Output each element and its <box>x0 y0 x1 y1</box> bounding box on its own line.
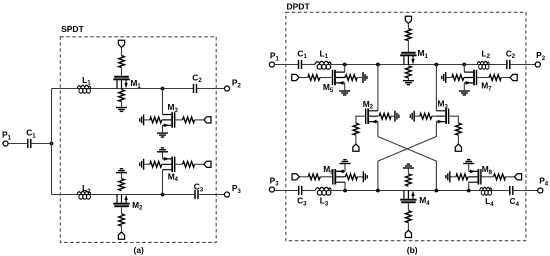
ground left of M3 body <box>140 114 144 125</box>
control terminal of M3 <box>204 117 211 123</box>
wire bottom branch <box>52 194 196 196</box>
node A junction <box>50 142 54 146</box>
svg-text:P3: P3 <box>232 183 242 195</box>
svg-text:DPDT: DPDT <box>287 1 311 11</box>
port P1 <box>3 141 8 146</box>
node top junction <box>161 87 165 91</box>
body resistor of M4 <box>150 161 162 167</box>
wire source of M2 to cross <box>378 122 437 191</box>
ground below M1 <box>116 108 127 112</box>
svg-text:P2: P2 <box>232 78 242 90</box>
node T1 <box>343 63 347 67</box>
svg-text:P2: P2 <box>536 50 546 62</box>
wire P1 to C1 <box>275 64 299 66</box>
wire gate of M1 <box>121 47 123 75</box>
control terminal of M4 <box>405 230 411 237</box>
wire P1 to C1 <box>8 143 28 145</box>
wire C3 to P3 <box>198 194 224 196</box>
wire gate of M5 <box>320 77 332 79</box>
port P1 <box>269 62 274 67</box>
svg-text:L3: L3 <box>320 195 329 207</box>
wire body of M5 to ground <box>357 77 362 79</box>
capacitor C3 <box>195 190 198 199</box>
gate resistor of M3 <box>456 123 462 135</box>
gate resistor of M3 <box>182 117 194 123</box>
inductor L4 <box>480 187 492 195</box>
wire gate of M6 <box>320 176 332 178</box>
ground above M4 <box>157 148 168 152</box>
wire source of M7 to ground <box>463 83 465 90</box>
control terminal of M7 <box>510 74 517 80</box>
gate resistor of M2 <box>119 214 125 226</box>
capacitor C1 <box>299 60 302 69</box>
control terminal of M2 <box>353 144 359 151</box>
body resistor of M7 <box>452 75 464 81</box>
svg-text:P1: P1 <box>2 129 12 141</box>
wire source of M6 to ground <box>344 164 346 171</box>
ground above M6 <box>340 160 351 164</box>
wire body of M4 to ground <box>144 163 150 165</box>
wire node B1 to M6 <box>344 182 346 190</box>
capacitor C2 <box>507 60 510 69</box>
wire body of M6 to ground <box>357 176 362 178</box>
wire bottom rail <box>331 190 510 192</box>
wire body of M1 to ground <box>407 78 409 80</box>
wire to control terminal of M6 <box>299 176 308 178</box>
body resistor of M3 <box>420 113 432 119</box>
port P2 <box>224 86 229 91</box>
svg-text:M4: M4 <box>419 195 430 207</box>
wire node B4 to M8 <box>468 182 470 190</box>
wire gate of M2 <box>356 116 365 123</box>
svg-text:(a): (a) <box>134 245 145 255</box>
transistor M8 <box>468 169 481 184</box>
ground below M7 <box>459 91 470 95</box>
body resistor of M6 <box>345 174 357 180</box>
wire source of M4 to ground <box>162 153 164 159</box>
wire to control terminal of M8 <box>505 176 514 178</box>
ground below M1 <box>403 81 414 85</box>
inductor L1 <box>77 85 91 93</box>
wire node T3 to M3 <box>435 65 437 111</box>
ground left of M8 body <box>446 171 450 182</box>
wire P3 to C3 <box>275 190 299 192</box>
wire gate of M7 <box>477 77 489 79</box>
dashed enclosure box (b) <box>286 12 526 240</box>
gate resistor of M8 <box>493 174 505 180</box>
svg-text:M4: M4 <box>168 171 179 183</box>
svg-text:P3: P3 <box>270 175 280 187</box>
ground right of M5 body <box>363 72 367 83</box>
wire source of M3 to ground <box>162 125 164 132</box>
ground left of M3 body <box>410 111 414 122</box>
svg-text:C1: C1 <box>297 48 307 60</box>
node T4 <box>462 63 466 67</box>
body resistor of M1 <box>119 90 125 102</box>
wire gate of M8 <box>482 176 494 178</box>
inductor L3 <box>315 187 331 195</box>
body resistor of M2 <box>379 113 391 119</box>
node B1 <box>343 189 347 193</box>
ground above M8 <box>463 160 474 164</box>
wire to control terminal of M3 <box>457 135 459 144</box>
wire C4 to P4 <box>513 190 538 192</box>
wire C2 to P2 <box>197 88 225 90</box>
transistor M4 <box>162 157 175 172</box>
ground below M3 <box>157 133 168 137</box>
node T3 <box>435 63 439 67</box>
wire node to M4 <box>162 170 164 195</box>
wire gate of M2 <box>121 208 123 233</box>
body resistor of M1 <box>406 66 412 78</box>
wire source of M5 to ground <box>344 83 346 90</box>
port P3 <box>224 192 229 197</box>
transistor M5 <box>332 70 345 85</box>
control terminal of M1 <box>405 16 411 23</box>
wire gate of M3 <box>175 119 182 121</box>
svg-text:C2: C2 <box>192 72 202 84</box>
wire node T4 to M7 <box>463 65 465 73</box>
transistor M1 <box>400 52 416 65</box>
svg-text:C2: C2 <box>506 48 516 60</box>
body resistor of M3 <box>150 117 162 123</box>
gate resistor of M4 <box>406 211 412 223</box>
svg-text:L2: L2 <box>482 48 491 60</box>
transistor M1 <box>113 76 129 89</box>
inductor L1 <box>315 61 331 69</box>
gate resistor of M5 <box>308 75 320 81</box>
port P4 <box>538 188 543 193</box>
ground above M2 <box>116 169 127 173</box>
wire gate of M4 <box>407 203 409 230</box>
gate resistor of M4 <box>182 161 194 167</box>
wire body of M3 to ground <box>144 119 150 121</box>
transistor M2 <box>365 109 378 124</box>
wire gate of M4 <box>175 163 182 165</box>
ground below M5 <box>339 91 350 95</box>
svg-text:M3: M3 <box>438 99 449 111</box>
capacitor C3 <box>299 186 302 195</box>
svg-text:L1: L1 <box>320 48 329 60</box>
control terminal of M2 <box>118 232 124 239</box>
wire C3 to L3 <box>302 190 315 192</box>
node B2 <box>376 189 380 193</box>
svg-text:L1: L1 <box>82 75 91 87</box>
transistor M2 <box>113 194 129 207</box>
ground left of M7 body <box>442 72 446 83</box>
svg-text:M2: M2 <box>132 200 143 212</box>
svg-text:SPDT: SPDT <box>61 24 84 34</box>
wire top branch <box>52 88 194 90</box>
node bottom junction <box>161 193 165 197</box>
svg-text:L2: L2 <box>82 183 91 195</box>
gate resistor of M2 <box>353 123 359 135</box>
capacitor C4 <box>510 186 513 195</box>
svg-text:C1: C1 <box>26 127 36 139</box>
wire node T2 to M2 <box>377 65 379 111</box>
wire gate of M3 <box>449 116 458 123</box>
dashed enclosure box (a) <box>60 37 216 243</box>
svg-text:(b): (b) <box>407 245 418 255</box>
wire to control terminal of M3 <box>194 119 203 121</box>
wire body of M4 to ground <box>407 169 409 175</box>
control terminal of M1 <box>118 40 124 47</box>
svg-text:C3: C3 <box>297 195 307 207</box>
body resistor of M2 <box>119 179 125 191</box>
port P3 <box>269 187 274 192</box>
capacitor C1 <box>28 139 31 148</box>
wire C1 to node A <box>31 143 52 145</box>
svg-text:P4: P4 <box>539 176 549 188</box>
inductor L2 <box>77 191 91 199</box>
wire to control terminal of M7 <box>501 77 510 79</box>
control terminal of M8 <box>514 174 521 180</box>
wire gate of M1 <box>407 23 409 52</box>
svg-text:M7: M7 <box>481 81 492 93</box>
wire to control terminal of M2 <box>355 135 357 144</box>
body resistor of M8 <box>456 174 468 180</box>
transistor M6 <box>332 169 345 184</box>
control terminal of M5 <box>292 74 299 80</box>
wire body of M2 to ground <box>121 173 123 179</box>
wire body of M2 to ground <box>391 115 394 117</box>
wire node to M3 <box>162 89 164 115</box>
port P2 <box>535 62 540 67</box>
node B3 <box>435 189 439 193</box>
gate resistor of M1 <box>406 29 412 41</box>
ground right of M6 body <box>363 171 367 182</box>
gate resistor of M6 <box>308 174 320 180</box>
svg-text:M1: M1 <box>418 48 429 60</box>
capacitor C2 <box>194 84 197 93</box>
transistor M3 <box>162 112 175 127</box>
svg-text:M8: M8 <box>482 164 493 176</box>
wire to control terminal of M5 <box>299 77 308 79</box>
gate resistor of M1 <box>119 56 125 68</box>
ground left of M4 body <box>140 159 144 170</box>
control terminal of M4 <box>204 161 211 167</box>
wire node T1 to M5 <box>344 65 346 73</box>
wire C1 to L1 <box>302 64 315 66</box>
control terminal of M6 <box>292 174 299 180</box>
svg-text:L4: L4 <box>485 196 494 208</box>
gate resistor of M7 <box>489 75 501 81</box>
wire source of M8 to ground <box>468 164 470 171</box>
svg-text:M6: M6 <box>323 164 334 176</box>
node T2 <box>376 63 380 67</box>
ground right of M2 body <box>395 111 399 122</box>
wire C2 to P2 <box>510 64 535 66</box>
transistor M4 <box>400 190 416 203</box>
body resistor of M4 <box>406 174 412 186</box>
wire body of M1 to ground <box>121 102 123 107</box>
body resistor of M5 <box>345 75 357 81</box>
ground above M4 <box>403 164 414 168</box>
wire to control terminal of M4 <box>194 163 203 165</box>
wire top rail <box>331 64 507 66</box>
wire body of M8 to ground <box>451 176 457 178</box>
wire body of M7 to ground <box>446 77 452 79</box>
transistor M3 <box>436 109 449 124</box>
wire body of M3 to ground <box>415 115 445 117</box>
wire vertical splitter <box>51 89 53 195</box>
wire source of M3 to cross <box>378 122 437 191</box>
control terminal of M3 <box>455 144 461 151</box>
svg-text:C4: C4 <box>510 196 520 208</box>
inductor L2 <box>477 61 489 69</box>
node B4 <box>467 189 471 193</box>
svg-text:P1: P1 <box>270 51 280 63</box>
transistor M7 <box>464 70 477 85</box>
